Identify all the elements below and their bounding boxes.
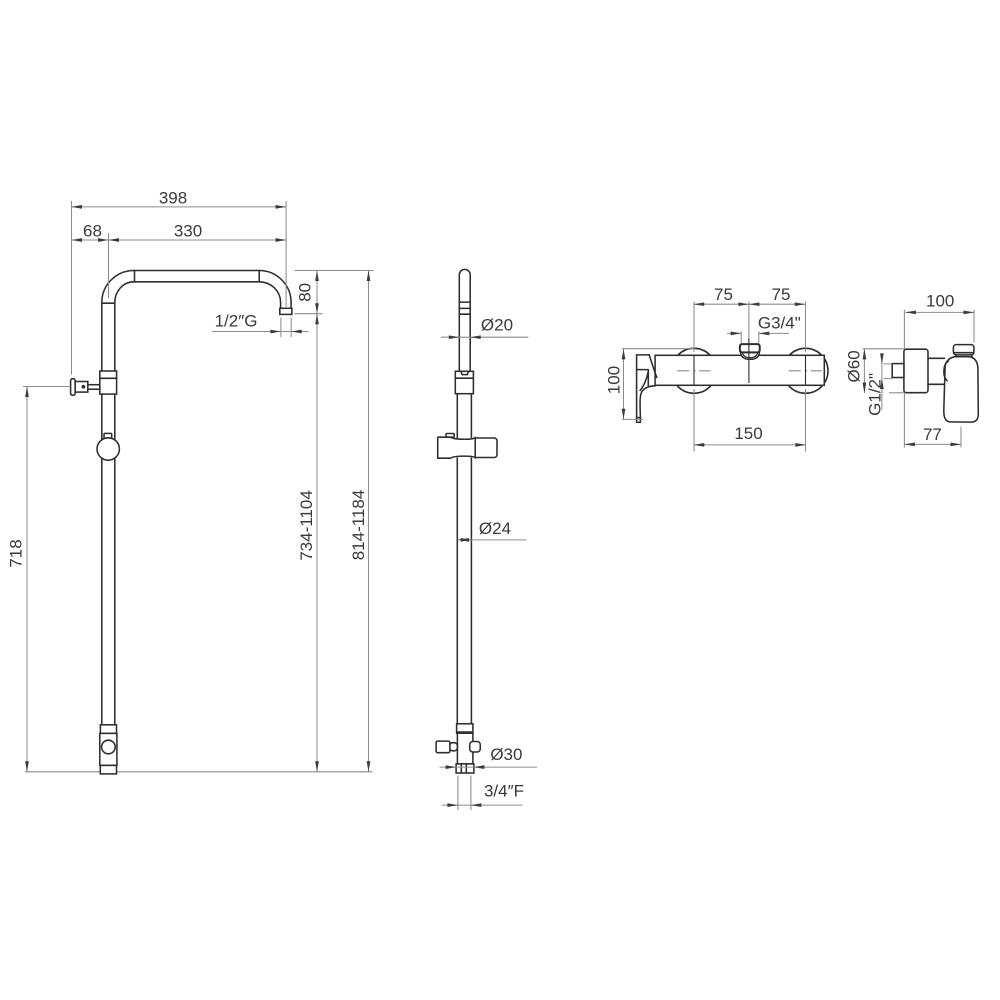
bottom thread connector: [456, 764, 474, 773]
svg-text:Ø60: Ø60: [845, 350, 864, 382]
wall bracket neck: [88, 385, 100, 390]
extension line arm top right: [295, 270, 374, 272]
mixer body: [655, 355, 824, 385]
extension line pole center: [108, 233, 110, 298]
bottom holder collar: [100, 725, 116, 734]
rail tube upper: [457, 394, 471, 440]
svg-text:G1/2": G1/2": [866, 373, 885, 416]
extension line 77 right: [960, 427, 962, 448]
extension line left 398: [71, 201, 73, 375]
dim diameter 60: [863, 349, 865, 393]
wall bracket plate: [71, 379, 76, 396]
dim 734-1104: [316, 314, 318, 772]
handle lever: [637, 355, 650, 418]
extension line left 100/77: [903, 310, 905, 448]
diverter left knob stem: [450, 743, 458, 751]
bottom holder body: [100, 733, 117, 765]
svg-text:75: 75: [772, 285, 791, 304]
right escutcheon circle: [783, 348, 828, 393]
extension line mid outlet: [748, 302, 750, 339]
top knob: [953, 345, 974, 355]
shower arm: [134, 271, 259, 282]
svg-text:Ø20: Ø20: [481, 316, 513, 335]
svg-text:330: 330: [174, 222, 202, 241]
top bend right: [259, 271, 291, 303]
svg-text:734-1104: 734-1104: [297, 490, 316, 561]
wall inlet square G1/2: [892, 364, 904, 378]
center mark left circle: [677, 370, 710, 372]
svg-text:398: 398: [159, 188, 187, 207]
connecting pipe: [928, 358, 945, 384]
tube rings: [459, 302, 470, 314]
dim 150: [694, 444, 806, 446]
cone arc behind handle: [944, 361, 948, 381]
svg-text:G3/4": G3/4": [758, 314, 801, 333]
escutcheon side: [904, 349, 928, 393]
svg-text:100: 100: [605, 366, 624, 394]
extension line nozzle bottom: [295, 313, 323, 315]
rail tube lower: [457, 456, 471, 724]
slider body: [438, 438, 496, 457]
extension line right 100: [973, 310, 975, 343]
dim 68 and 330: [72, 239, 287, 241]
diverter right knob: [470, 742, 481, 753]
hand shower tube top cap: [459, 269, 470, 371]
diverter body: [457, 733, 473, 764]
svg-text:814-1184: 814-1184: [349, 490, 368, 561]
slider cup: [475, 438, 497, 458]
pole collar: [100, 371, 117, 394]
extension line handle top: [622, 348, 694, 350]
svg-text:80: 80: [296, 283, 315, 302]
extension line handle bottom: [622, 418, 643, 420]
center mark right circle: [789, 370, 822, 372]
bottom reference line: [25, 771, 373, 773]
svg-text:1/2″G: 1/2″G: [215, 312, 258, 331]
extension lines G1/2: [884, 364, 893, 379]
top outlet G3/4: [741, 352, 760, 359]
svg-text:3/4″F: 3/4″F: [484, 782, 524, 801]
svg-text:100: 100: [926, 292, 954, 311]
dim G1/2: [881, 356, 883, 410]
wall bracket body: [75, 382, 88, 393]
dim 100: [905, 311, 974, 313]
riser pole: [102, 303, 115, 725]
left escutcheon circle: [672, 348, 717, 393]
svg-text:Ø30: Ø30: [490, 745, 522, 764]
slider knob: [97, 438, 119, 460]
top bend left: [102, 271, 134, 303]
dim 80: [316, 271, 318, 314]
diverter left knob: [436, 741, 450, 753]
svg-text:150: 150: [734, 424, 762, 443]
dim 398: [72, 206, 287, 208]
svg-text:75: 75: [714, 285, 733, 304]
handle body: [944, 357, 979, 422]
handle neck: [955, 355, 972, 357]
dim 718: [26, 387, 28, 772]
slider tab: [446, 434, 454, 438]
rail bottom band: [457, 724, 473, 733]
dim 100: [623, 349, 625, 419]
slider tab: [104, 433, 112, 438]
dim 814-1184: [368, 271, 370, 772]
extension line nozzle center: [285, 201, 287, 307]
extension lines diameter 60: [863, 349, 904, 393]
dim 75 75: [694, 303, 806, 305]
svg-text:718: 718: [7, 539, 26, 567]
pole joint line: [102, 302, 115, 304]
svg-text:Ø24: Ø24: [479, 519, 511, 538]
extension line bracket left: [23, 386, 71, 388]
svg-text:77: 77: [923, 425, 942, 444]
svg-text:68: 68: [83, 222, 102, 241]
arm nozzle: [281, 303, 292, 309]
bottom holder end: [100, 765, 116, 774]
dim 77: [904, 443, 961, 445]
tube connector: [455, 371, 473, 393]
